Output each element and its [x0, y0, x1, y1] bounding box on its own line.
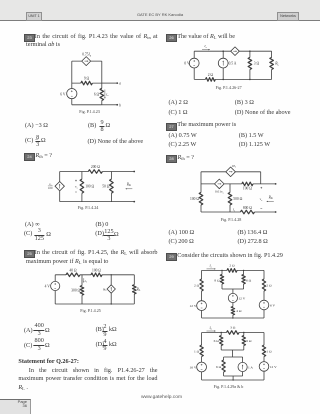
svg-text:6 Ω: 6 Ω: [214, 339, 220, 343]
networks label box: [277, 12, 299, 21]
wire bottom with resistor 800Ω: [201, 211, 276, 213]
svg-text:100 Ω: 100 Ω: [243, 186, 252, 190]
resistor 200Ω: [88, 170, 102, 174]
question 26 number box: [166, 34, 177, 42]
wire bottom, fig P1.4.23: [72, 104, 102, 106]
svg-text:800 Ω: 800 Ω: [243, 206, 252, 210]
svg-text:Rth: Rth: [126, 182, 132, 187]
node junctions a: [221, 270, 222, 271]
terminal bottom right: [133, 201, 135, 203]
question 23 number box: [24, 34, 35, 42]
voltage source 12V right b: [259, 362, 269, 372]
svg-text:12 V: 12 V: [270, 365, 277, 369]
svg-text:3 Ω: 3 Ω: [254, 62, 260, 66]
wire middle, fig P1.4.23: [72, 82, 102, 84]
svg-text:0.75Ix: 0.75Ix: [82, 53, 92, 58]
resistor 3Ω top b: [227, 331, 240, 335]
svg-text:40 Ω: 40 Ω: [69, 268, 76, 272]
svg-text:10 V: 10 V: [184, 62, 190, 66]
voltage source 6V: [67, 89, 77, 99]
left branch a: resistor 2Ω: [201, 270, 203, 300]
voltage source 4V: [54, 275, 56, 304]
dependent source 9I1 top: [226, 167, 236, 177]
svg-text:9I1: 9I1: [232, 164, 237, 169]
svg-text:2 Ω: 2 Ω: [266, 283, 272, 287]
resistor 8Ω inner left a: [221, 270, 223, 289]
resistor 6Ω inner left b: [220, 333, 222, 351]
voltage source 16V b: [197, 362, 207, 372]
current source 0.5A: [222, 51, 224, 79]
resistor RL: [271, 51, 273, 79]
resistor 40Ω: [66, 273, 80, 277]
resistor 300Ω branch with current i1: [81, 275, 83, 304]
voltage source 12V middle a: [228, 293, 237, 302]
caption fig P1.4.23: [79, 109, 100, 114]
svg-text:1 Ω: 1 Ω: [194, 349, 200, 353]
svg-text:vx: vx: [260, 197, 263, 202]
dependent source 0.01vx middle: [215, 179, 225, 189]
resistor 3Ω: [249, 51, 251, 79]
wire bottom, fig P1.4.25: [55, 303, 134, 305]
wire inner loop bottom b: [224, 376, 243, 380]
header band: [0, 0, 320, 20]
unit label box: [26, 12, 42, 21]
svg-text:3 Ω: 3 Ω: [230, 326, 236, 330]
svg-text:4 Ω: 4 Ω: [236, 309, 242, 313]
resistor 2Ω top a: [227, 269, 237, 273]
svg-text:1 Ω: 1 Ω: [266, 349, 272, 353]
svg-text:Rth: Rth: [268, 195, 274, 200]
svg-text:2 Ω: 2 Ω: [229, 264, 235, 268]
wire top circuit b: [202, 332, 264, 334]
svg-text:2 Ω: 2 Ω: [208, 73, 214, 77]
resistor 50Ω branch: [110, 172, 112, 202]
svg-text:9 Ω: 9 Ω: [84, 77, 90, 81]
svg-text:0.5 A: 0.5 A: [229, 62, 237, 66]
question 25 number box: [24, 250, 35, 258]
svg-text:Ia: Ia: [209, 264, 213, 269]
dependent source 9i1: [110, 275, 112, 304]
wire top, fig P1.4.23: [72, 60, 102, 62]
caption fig P1.4.26-27: [216, 85, 242, 90]
svg-text:50 Ω: 50 Ω: [102, 184, 109, 188]
resistor 100Ω left branch: [199, 192, 203, 205]
right branch b: resistor 1Ω: [263, 333, 265, 362]
terminal bottom: [275, 211, 277, 213]
resistor 6Ω inner right b: [243, 333, 245, 351]
node junctions b: [221, 332, 222, 333]
question 29 number box: [166, 253, 177, 261]
wire bottom b: [202, 379, 264, 381]
wire bottom, fig P1.4.24: [60, 201, 135, 203]
options Q24: [25, 222, 40, 228]
voltage source 12V left a: [197, 301, 207, 311]
node a: [116, 82, 118, 84]
resistor 100Ω branch: [81, 172, 83, 202]
svg-text:0.01vx: 0.01vx: [215, 190, 224, 195]
wire top, fig P1.4.28: [201, 172, 261, 184]
question 27 number box: [166, 123, 177, 131]
current i1 arrow: [83, 278, 85, 282]
page number box: [0, 399, 31, 414]
options Q25: [24, 328, 33, 334]
svg-text:9i1: 9i1: [103, 287, 108, 292]
resistor RL load: [133, 275, 135, 304]
svg-text:12 V: 12 V: [190, 304, 197, 308]
svg-text:6 V: 6 V: [270, 303, 276, 307]
wire inner loop top b: [224, 356, 243, 358]
svg-text:4 V: 4 V: [45, 285, 51, 289]
svg-text:500 Ω: 500 Ω: [233, 197, 242, 201]
svg-text:8 Ω: 8 Ω: [214, 278, 220, 282]
node b: [116, 104, 118, 106]
svg-text:RL: RL: [274, 62, 279, 67]
footer url: [141, 395, 182, 400]
svg-text:6 Ω: 6 Ω: [94, 93, 100, 97]
svg-text:Ix: Ix: [105, 92, 109, 97]
svg-text:i1: i1: [85, 279, 88, 284]
right branch a: resistor 2Ω: [263, 270, 265, 300]
caption fig P1.4.25: [80, 308, 101, 313]
wire top, fig P1.4.24: [60, 171, 135, 173]
current Ia arrow: [207, 268, 216, 270]
svg-text:200 Ω: 200 Ω: [91, 165, 100, 169]
current Ix arrow on top wire: [202, 49, 210, 51]
wire left edge, fig P1.4.24: [59, 172, 61, 202]
resistor 6Ω inner right a: [243, 270, 245, 289]
svg-text:6 Ω: 6 Ω: [216, 365, 222, 369]
caption fig P1.4.28: [221, 217, 242, 222]
caption fig P1.4.29a and b: [214, 384, 244, 389]
svg-text:16 V: 16 V: [190, 365, 197, 369]
terminal top: [275, 183, 277, 185]
wire inner bottom b: [221, 350, 244, 357]
wire inner bottom a: [222, 289, 244, 294]
resistor 100Ω: [91, 273, 102, 277]
options Q28: [169, 230, 195, 236]
wire bottom with resistor 2Ω: [194, 78, 271, 80]
svg-text:RL: RL: [136, 287, 141, 292]
wire bottom a: [202, 317, 264, 319]
svg-text:100 Ω: 100 Ω: [190, 197, 199, 201]
svg-text:100 Ω: 100 Ω: [92, 268, 101, 272]
wire stub to terminal b: [102, 104, 117, 106]
wire left edge (top loop + source branch), fig P1.4.23: [71, 61, 73, 105]
current Ix arrow: [104, 90, 106, 99]
options Q23: [25, 123, 48, 129]
svg-text:6 Ω: 6 Ω: [246, 339, 252, 343]
resistor 6Ω: [100, 88, 104, 100]
svg-text:12 V: 12 V: [238, 297, 245, 301]
wire top, fig P1.4.26-27: [194, 50, 271, 52]
svg-text:b: b: [119, 103, 121, 107]
port annotation + vx -: [260, 187, 262, 189]
svg-text:6 Ω: 6 Ω: [246, 278, 252, 282]
terminal top right: [133, 171, 135, 173]
resistor 500Ω middle branch: [229, 184, 231, 212]
svg-text:1 A: 1 A: [248, 365, 253, 369]
node junctions: [222, 50, 224, 52]
resistor 9Ω: [81, 81, 93, 85]
statement heading: [18, 359, 79, 365]
caption fig P1.4.24: [78, 205, 99, 210]
annotation + vx -: [75, 180, 77, 182]
options Q27: [169, 133, 197, 139]
voltage source 10V: [193, 51, 195, 79]
wire right edge, fig P1.4.23: [101, 61, 103, 105]
svg-text:300 Ω: 300 Ω: [71, 288, 80, 292]
svg-text:100 Ω: 100 Ω: [85, 184, 94, 188]
dependent source 0.75Ix: [82, 57, 91, 66]
voltage source 6V right a: [259, 300, 269, 310]
svg-text:Ix: Ix: [203, 44, 207, 49]
dependent source diamond on top wire: [231, 47, 240, 56]
svg-text:a: a: [119, 82, 121, 86]
wire stub to terminal a: [102, 82, 117, 84]
dependent current source vx/100: [55, 182, 64, 191]
resistor 6Ω inner loop b: [223, 357, 225, 376]
left branch b: resistor 1Ω: [201, 333, 203, 363]
resistor 100Ω right horizontal: [242, 182, 253, 186]
svg-text:100: 100: [48, 186, 53, 190]
question 24 number box: [24, 153, 35, 161]
svg-text:2 Ω: 2 Ω: [194, 283, 200, 287]
wire top, fig P1.4.25: [55, 274, 134, 276]
svg-text:6 V: 6 V: [60, 92, 66, 96]
options Q26: [169, 100, 188, 106]
question 28 number box: [166, 155, 177, 163]
wire top circuit a: [202, 269, 264, 271]
current source 1A b: [242, 357, 244, 376]
current Ib arrow: [207, 330, 216, 332]
svg-text:Ib: Ib: [209, 326, 213, 331]
svg-text:vx: vx: [75, 185, 78, 190]
wire middle, fig P1.4.28: [201, 183, 276, 185]
resistor 4Ω middle a: [232, 303, 234, 318]
node junctions: [111, 274, 112, 275]
wire left edge, fig P1.4.28: [200, 172, 202, 212]
header title: [137, 12, 183, 17]
